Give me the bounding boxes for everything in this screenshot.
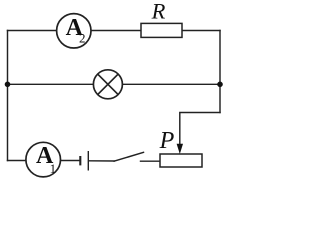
svg-text:R: R (151, 0, 166, 23)
svg-text:P: P (159, 128, 175, 154)
battery cell: short negative plate (79, 156, 81, 165)
node right junction (217, 82, 223, 88)
lamp (93, 70, 122, 99)
switch blade (114, 152, 144, 161)
wire middle-left to lamp (8, 83, 94, 85)
rheostat P box (160, 154, 202, 167)
wire A1 to battery (61, 160, 80, 162)
battery cell: long positive plate (87, 151, 89, 171)
wire right vertical (219, 31, 221, 113)
wire bottom-left to A1 (8, 160, 27, 162)
ammeter A1 (26, 142, 61, 177)
ammeter A2 (57, 14, 91, 48)
resistor R (141, 23, 182, 37)
wire switch contact to rheostat (141, 160, 161, 162)
svg-text:1: 1 (50, 161, 57, 176)
wire top-left horizontal (8, 30, 57, 32)
wire battery to switch pivot (89, 160, 114, 162)
rheostat wiper arrowhead (177, 144, 183, 154)
wire A2 to resistor (91, 30, 141, 32)
wire left vertical (7, 31, 9, 161)
wire jog horizontal to wiper (180, 113, 220, 147)
wire lamp to right junction (122, 83, 220, 85)
node left junction (5, 82, 11, 88)
wire resistor to top-right corner (182, 30, 220, 32)
svg-text:2: 2 (79, 31, 86, 46)
